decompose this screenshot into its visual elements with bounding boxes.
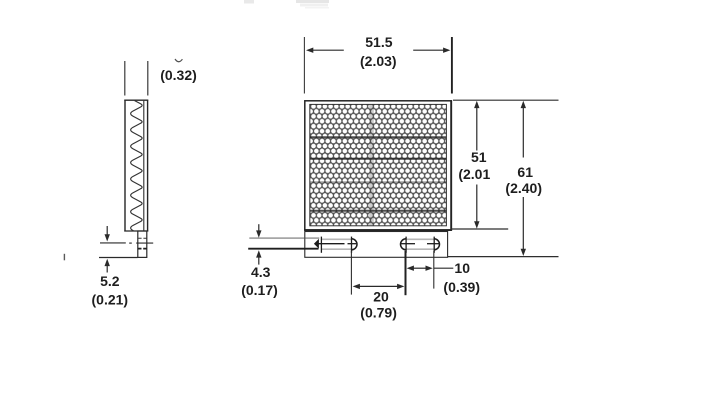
4.3 bottom reference line [248,248,318,250]
svg-text:(0.17): (0.17) [241,282,278,298]
svg-text:51: 51 [471,149,487,165]
svg-text:(0.39): (0.39) [443,279,480,295]
cropped text remnant top left [244,0,254,4]
mounting strip [305,232,448,258]
label (0.21) [92,292,129,308]
top extension line [453,99,559,101]
label (0.79) [360,304,397,320]
centerline dash-dot (side) [100,242,153,244]
honeycomb reflective area [310,104,447,225]
hidden hole line bottom (side) [138,248,147,250]
51.5 extension line left [303,37,305,94]
extension line left of 8.2 dim [124,61,126,96]
51.5 dim line right arrow [413,48,450,53]
svg-text:(0.32): (0.32) [160,67,197,83]
label (0.32) [160,67,197,83]
51.5 extension line right [451,37,453,94]
label 61 [517,164,533,180]
svg-text:51.5: 51.5 [365,34,392,50]
4.3 down arrow [256,224,261,238]
51.5 dim line left arrow [306,48,344,53]
svg-text:20: 20 [373,289,389,305]
61 dim vertical with arrows [521,101,526,256]
svg-text:(0.79): (0.79) [360,304,397,320]
stray tick left margin [63,254,65,260]
reflector square outline [304,100,452,231]
5.2 dim down arrow [105,226,110,242]
slot 2 end ticks [406,237,434,253]
svg-text:(2.03): (2.03) [360,53,397,69]
4.3 up arrow [256,250,261,264]
label 20 [373,289,389,305]
svg-text:(2.01: (2.01 [458,166,490,182]
20/10 shared thick extension line [405,251,407,295]
side view body outline [124,100,148,232]
5.2 dim up arrow [105,259,110,273]
svg-text:61: 61 [517,164,533,180]
extension line right of 8.2 dim [147,61,149,96]
label 5.2 [100,273,120,289]
cropped digit remnant above (0.32) [175,59,182,62]
side view inner face line [143,101,145,231]
label 51.5 [365,34,392,50]
label (2.40) [505,180,542,196]
slot 1 end ticks [321,237,351,253]
sawtooth prism profile [131,101,142,231]
label (0.17) [241,282,278,298]
51 dim vertical with arrows [474,101,479,229]
slot 2 [401,239,440,250]
label 51 [471,149,487,165]
5.2 dim bottom reference line [99,257,138,259]
slot 1 [314,239,357,250]
label 4.3 [251,264,271,280]
10 dim right extension line [433,251,435,289]
label (0.39) [443,279,480,295]
mounting stem tab (side view) [138,231,147,257]
20 dim left extension line [350,251,352,295]
label (2.03) [360,53,397,69]
label (2.01 [458,166,490,182]
svg-text:4.3: 4.3 [251,264,271,280]
cropped text remnant top right [296,0,329,9]
svg-text:(2.40): (2.40) [505,180,542,196]
svg-text:(0.21): (0.21) [92,292,129,308]
4.3 top reference line [249,237,319,239]
10 dim line with arrows and tail [407,266,454,271]
61 bottom extension line [448,256,559,258]
51 bottom extension line [451,228,509,230]
label 10 [454,260,470,276]
hidden hole line top (side) [138,237,146,239]
svg-text:10: 10 [454,260,470,276]
svg-text:5.2: 5.2 [100,273,120,289]
20 dim line with arrows [353,284,405,289]
